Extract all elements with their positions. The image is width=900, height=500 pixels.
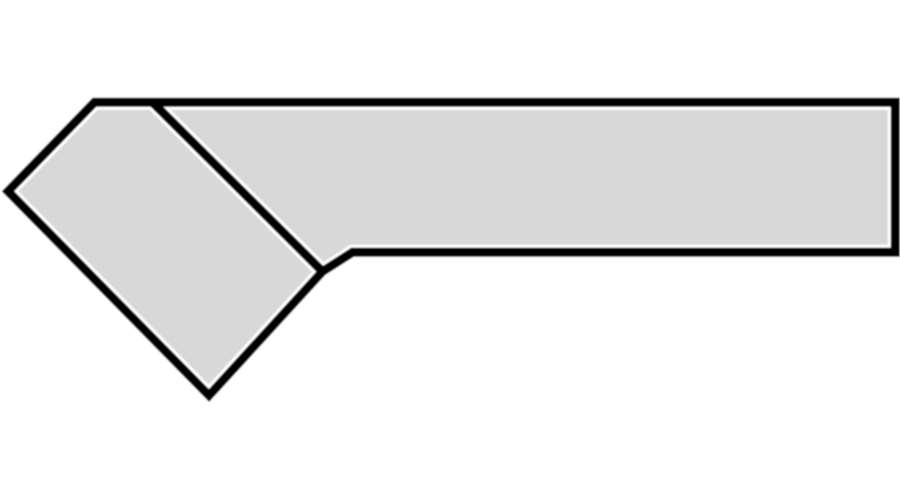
halo under head/shank boundary line (153, 102, 323, 271)
tool body fill (shank + bent head) (8, 102, 895, 395)
head/shank boundary line (153, 102, 323, 271)
tool body outline (8, 102, 895, 395)
